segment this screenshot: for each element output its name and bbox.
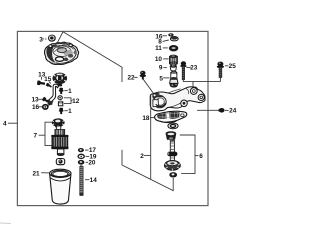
svg-text:7: 7 bbox=[34, 132, 38, 139]
spacer of 12 lower bbox=[58, 101, 62, 106]
coupling joint bbox=[56, 159, 64, 165]
part 3 grommet bbox=[48, 35, 56, 42]
dash 14 bbox=[85, 179, 89, 181]
dash 17 bbox=[85, 149, 89, 151]
svg-text:20: 20 bbox=[88, 160, 96, 167]
svg-text:3: 3 bbox=[39, 36, 43, 43]
bolt 1 top bbox=[59, 88, 64, 94]
cup 21 bbox=[50, 169, 71, 204]
svg-text:12: 12 bbox=[72, 98, 80, 105]
bolt 14 bbox=[79, 165, 83, 196]
wire: leader polyline to bottom washer bbox=[122, 150, 173, 191]
wire: leader vertical for label 2 bbox=[150, 94, 152, 180]
strainer 18 bbox=[155, 111, 187, 123]
washer below strainer bbox=[168, 123, 178, 129]
svg-text:4: 4 bbox=[3, 121, 7, 128]
dash 19 bbox=[86, 155, 90, 157]
svg-text:16: 16 bbox=[32, 104, 40, 111]
svg-text:13: 13 bbox=[31, 97, 39, 104]
svg-text:6: 6 bbox=[199, 153, 203, 160]
svg-text:15: 15 bbox=[44, 76, 52, 83]
svg-text:1: 1 bbox=[68, 108, 72, 115]
dash 9 bbox=[163, 67, 166, 69]
dash 15 bbox=[49, 81, 51, 83]
dash 8 bbox=[163, 40, 169, 41]
lower sleeve bbox=[57, 149, 64, 155]
wire: leader V from housing over frame top bbox=[58, 32, 123, 82]
oil pipe (part of 12) bbox=[47, 84, 58, 105]
faint scan mark bottom-left bbox=[0, 222, 11, 225]
svg-text:21: 21 bbox=[32, 170, 40, 177]
svg-text:1: 1 bbox=[68, 88, 72, 95]
svg-text:11: 11 bbox=[155, 45, 162, 52]
end washer bbox=[169, 172, 177, 177]
washer 16 lower bbox=[43, 105, 48, 109]
wire: leaders lower 13 16 to pipe bbox=[47, 101, 54, 108]
wire: leader for label 2 bbox=[144, 154, 151, 156]
dash 24 bbox=[225, 109, 229, 111]
dash 1 top bbox=[64, 90, 68, 92]
cup 9 bbox=[170, 64, 177, 71]
label dashes bbox=[38, 36, 228, 180]
washer 16 col bbox=[168, 33, 173, 36]
washer 20 bbox=[78, 160, 85, 165]
bushing 10 bbox=[169, 55, 177, 65]
washer 17 bbox=[78, 148, 84, 152]
svg-text:2: 2 bbox=[140, 153, 144, 160]
dash 25 bbox=[225, 65, 229, 67]
bolt 25 bbox=[217, 62, 224, 78]
svg-text:10: 10 bbox=[155, 56, 163, 63]
svg-text:18: 18 bbox=[142, 115, 150, 122]
washer of 12 upper bbox=[58, 96, 62, 100]
svg-text:22: 22 bbox=[127, 75, 135, 82]
dash 16 col bbox=[162, 35, 166, 37]
laminated core bbox=[51, 135, 68, 149]
drive gear on shaft bbox=[164, 161, 180, 171]
wire: leader bolt 22 to body bbox=[143, 79, 157, 98]
washer 19 bbox=[78, 154, 84, 158]
cup washer top of shaft 6 bbox=[166, 131, 177, 140]
plug 24 bbox=[219, 108, 225, 113]
wire: shared leader bolts 23 and 25 bbox=[183, 78, 220, 82]
dash 3 bbox=[42, 38, 47, 40]
bracket 12 bbox=[64, 98, 71, 104]
dash 13 lower bbox=[38, 98, 42, 100]
bolt 23 bbox=[180, 61, 186, 79]
dash 22 bbox=[134, 76, 137, 78]
dash 11 bbox=[163, 47, 168, 49]
gear of armature 7 bbox=[52, 118, 65, 127]
commutator bbox=[55, 130, 65, 136]
valve 5 bbox=[170, 71, 178, 87]
bolt 13 lower bbox=[42, 97, 49, 104]
pump shaft 6 bbox=[167, 140, 177, 166]
armature shaft neck bbox=[56, 126, 60, 130]
dash 1 bottom bbox=[64, 110, 68, 112]
bolt 1 bottom bbox=[59, 108, 64, 114]
svg-text:14: 14 bbox=[90, 177, 98, 184]
wire: leader bolt 24 bbox=[197, 109, 219, 111]
housing cover (part of assy 4) bbox=[45, 42, 79, 64]
pump body bbox=[150, 87, 205, 111]
washer 8 bbox=[170, 36, 178, 41]
svg-text:5: 5 bbox=[159, 76, 163, 83]
svg-text:25: 25 bbox=[229, 63, 237, 70]
bolt 13 upper bbox=[37, 80, 45, 85]
dash 13 upper bbox=[41, 77, 43, 80]
dash 20 bbox=[86, 161, 88, 163]
bolt 15 bbox=[46, 83, 53, 89]
bracket 7 bbox=[45, 122, 53, 145]
bolt 22 bbox=[140, 71, 147, 80]
border frame of drawing bbox=[17, 31, 208, 205]
dash 23 bbox=[186, 66, 190, 68]
wire: leader 18 bbox=[150, 117, 156, 119]
dash 10 bbox=[163, 58, 168, 60]
wire: leader 21 bbox=[41, 172, 50, 174]
dash 5 bbox=[163, 77, 169, 79]
svg-text:24: 24 bbox=[229, 108, 237, 115]
o-ring 11 bbox=[169, 45, 178, 51]
svg-text:23: 23 bbox=[190, 65, 198, 72]
svg-text:9: 9 bbox=[159, 65, 163, 72]
wire: leader label 4 to frame bbox=[8, 122, 17, 124]
bracket 6 bbox=[180, 135, 195, 174]
rotor set bbox=[53, 73, 68, 87]
dash 16 lower bbox=[39, 106, 43, 108]
